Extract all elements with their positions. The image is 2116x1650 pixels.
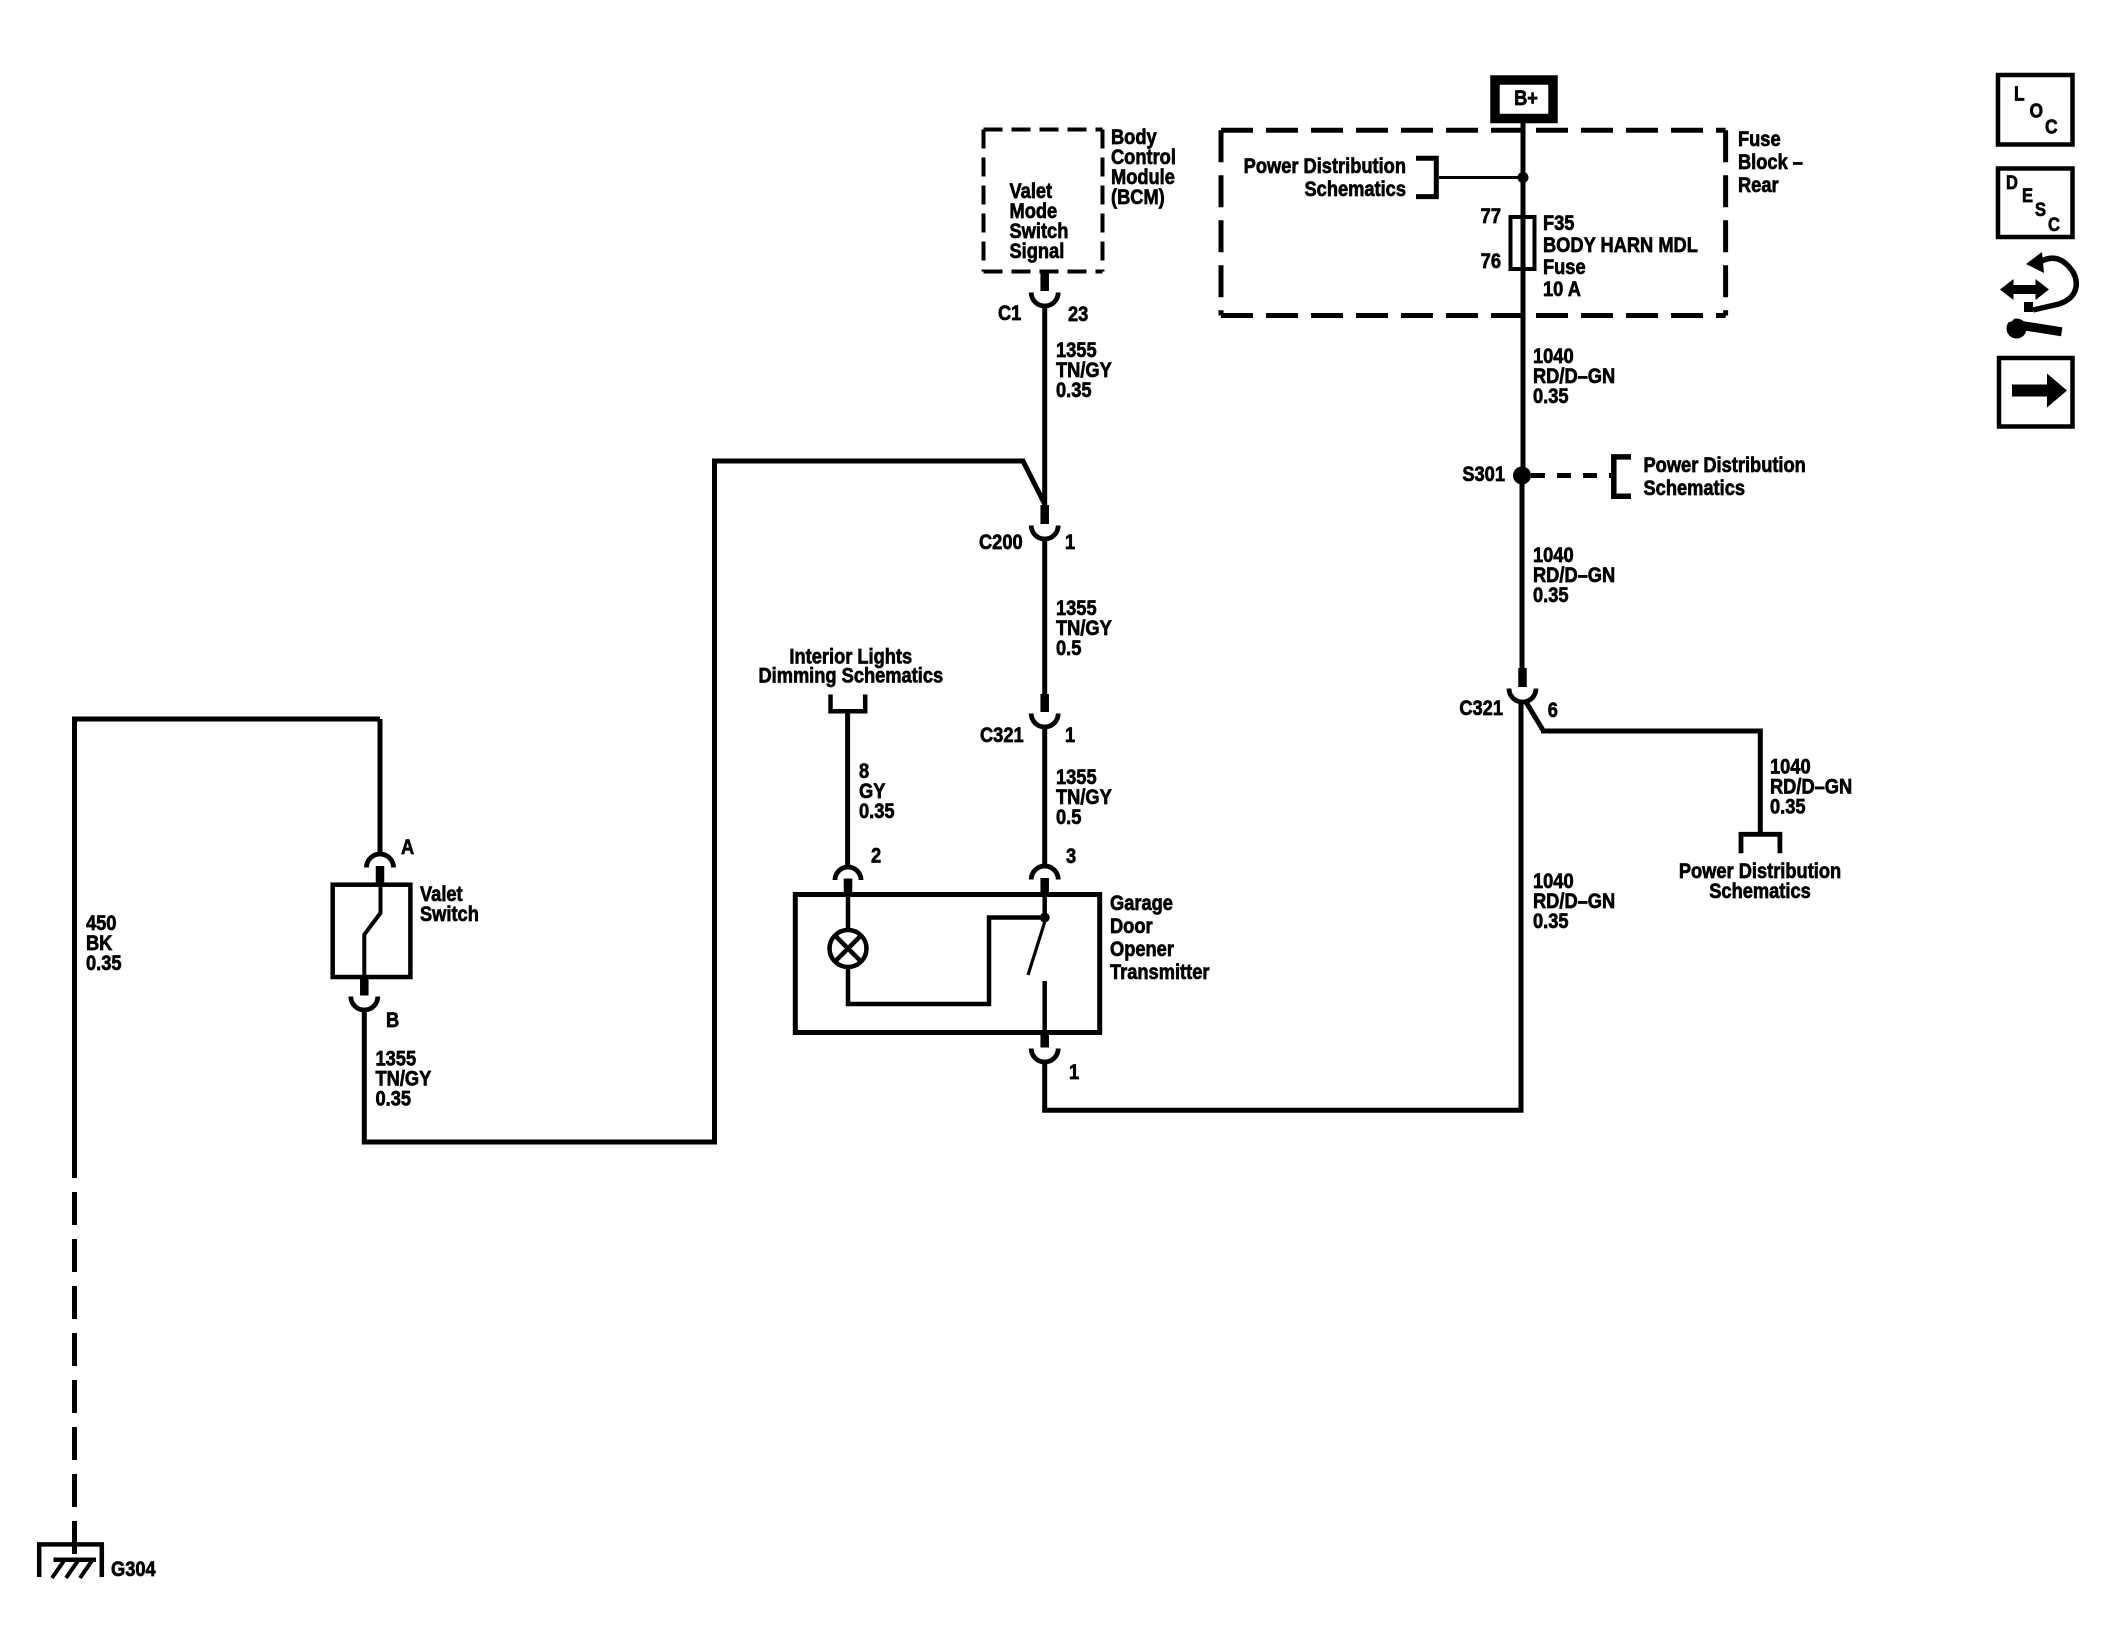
LOC icon box [1998, 75, 2073, 145]
DESC icon letter E [2022, 185, 2033, 206]
ground G304 bracket [39, 1544, 102, 1577]
label pin 6 [1548, 699, 1558, 722]
DESC icon letter S [2035, 199, 2046, 220]
svg-text:C321: C321 [980, 724, 1024, 747]
svg-text:1: 1 [1065, 724, 1075, 747]
pin A stub [376, 866, 385, 885]
label fuse pin 77 [1481, 205, 1501, 228]
rework/double-arrow + wrench icon [2000, 252, 2076, 339]
LOC icon letter C [2045, 115, 2058, 137]
wire 1040 from S301 to C321-6 [1520, 484, 1525, 668]
label wire 1040 RD/D-GN 0.35 (fuse) [1533, 345, 1615, 408]
svg-text:B: B [386, 1009, 399, 1032]
svg-text:G304: G304 [111, 1558, 156, 1581]
svg-text:C321: C321 [1459, 697, 1503, 720]
wire: drop to valet switch pin A [378, 719, 383, 854]
label C1 [998, 302, 1021, 325]
label wire 1355 TN/GY 0.35 (valet B) [376, 1047, 432, 1110]
wire 450 BK dashed segment down to G304 [72, 1192, 77, 1558]
B+ battery feed symbol [1495, 80, 1553, 119]
wire 1355 from C1 to C200 [1042, 306, 1047, 505]
connector GDO pin2 dome [835, 867, 861, 880]
svg-text:3: 3 [1066, 845, 1076, 868]
connector pin A dome [367, 854, 394, 867]
forward arrow glyph [2012, 374, 2067, 408]
off-page bracket (interior lights) [831, 695, 866, 712]
label ground G304 [111, 1558, 156, 1581]
pin B stub [360, 977, 369, 996]
svg-text:B+: B+ [1514, 87, 1538, 110]
forward arrow icon box [1999, 358, 2073, 427]
svg-text:S301: S301 [1462, 463, 1505, 486]
garage door opener transmitter box [795, 895, 1099, 1033]
fuse block - rear dashed box [1221, 130, 1726, 315]
splice S301 [1513, 467, 1531, 485]
svg-text:C1: C1 [998, 302, 1021, 325]
ground G304 slash 2 [66, 1560, 79, 1578]
label Power Distribution Schematics (S301) [1644, 454, 1806, 500]
connector GDO pin3 dome [1031, 866, 1058, 880]
valet switch box [333, 885, 411, 977]
DESC icon box [1998, 169, 2073, 238]
LOC icon letter O [2030, 99, 2044, 121]
label Valet Switch [420, 883, 479, 926]
off-page bracket (branch power distribution) [1741, 834, 1780, 853]
wire: valet B down, across, up riser to BCM branch [364, 461, 1044, 1142]
label wire 1040 RD/D-GN 0.35 (S301) [1533, 544, 1615, 607]
label Power Distribution Schematics (branch) [1679, 860, 1841, 903]
connector C200 cup [1031, 526, 1058, 540]
BCM dashed box (Valet Mode Switch Signal) [984, 130, 1103, 272]
DESC icon letter C [2048, 214, 2060, 235]
svg-text:D: D [2006, 172, 2018, 193]
label pin B [386, 1009, 399, 1032]
svg-text:1: 1 [1065, 531, 1075, 554]
svg-text:S: S [2035, 199, 2046, 220]
connector C1 cup [1031, 293, 1058, 307]
valet switch blade [364, 886, 380, 977]
label wire 1355 TN/GY 0.5 (C321) [1056, 766, 1112, 829]
label wire 1355 TN/GY 0.35 (C1) [1056, 339, 1112, 402]
svg-text:A: A [401, 836, 414, 859]
wire: GDO pin1 across and up to C321-6 [1045, 702, 1521, 1110]
label pin 23 [1068, 303, 1088, 326]
label Power Distribution Schematics (fuse block) [1244, 155, 1406, 201]
svg-text:C: C [2045, 115, 2058, 137]
branch wire to power distribution ref [1541, 731, 1760, 833]
ground G304 slash 1 [52, 1560, 65, 1578]
label pin 3 [1066, 845, 1076, 868]
GDO pin 1 stub [1040, 1032, 1049, 1048]
connector C321-6 stub [1518, 668, 1527, 687]
label S301 [1462, 463, 1505, 486]
off-page bracket (fuse block power distribution) [1416, 158, 1436, 196]
svg-text:6: 6 [1548, 699, 1558, 722]
svg-text:E: E [2022, 185, 2033, 206]
wire: ground-loop from valet A corner to left riser [75, 719, 381, 1178]
svg-text:C200: C200 [979, 531, 1023, 554]
ground G304 slash 3 [80, 1560, 93, 1578]
label wire 1040 RD/D-GN 0.35 (branch) [1770, 755, 1852, 818]
label C200 pin 1 [1065, 531, 1075, 554]
label Body Control Module (BCM) [1111, 126, 1176, 209]
label C200 [979, 531, 1023, 554]
ground G304 hatch bar [54, 1558, 97, 1563]
GDO pin 3 stub [1040, 878, 1049, 895]
label Valet Mode Switch Signal [1010, 180, 1069, 263]
svg-text:77: 77 [1481, 205, 1501, 228]
label C321 [980, 724, 1024, 747]
off-page bracket (S301 power distribution) [1614, 457, 1631, 496]
label wire 1355 TN/GY 0.5 (C200) [1056, 597, 1112, 660]
svg-text:O: O [2030, 99, 2044, 121]
label wire 8 GY 0.35 [859, 760, 895, 823]
label pin A [401, 836, 414, 859]
svg-text:L: L [2014, 82, 2025, 104]
GDO pin 2 stub [844, 879, 853, 896]
label pin 2 [871, 844, 881, 867]
wire from B+ through fuse to S301 [1521, 123, 1526, 467]
label Fuse Block - Rear [1738, 128, 1803, 197]
label C321 pin 1 [1065, 724, 1075, 747]
lamp (indicator) symbol [830, 930, 867, 967]
connector C200 stub [1040, 505, 1049, 524]
reference wire to bus [1439, 176, 1523, 179]
S301 dashed reference line [1531, 473, 1611, 478]
svg-text:23: 23 [1068, 303, 1088, 326]
svg-text:2: 2 [871, 844, 881, 867]
label GDO pin 1 [1069, 1061, 1079, 1084]
switch blade (open) [1028, 922, 1045, 975]
label Interior Lights Dimming Schematics [758, 645, 943, 687]
label wire 1040 RD/D-GN 0.35 (below C321-6) [1533, 870, 1615, 933]
connector pin B cup [351, 997, 378, 1010]
label C321 (pin6) [1459, 697, 1503, 720]
branch diagonal from C321-6 [1526, 702, 1544, 731]
svg-text:1: 1 [1069, 1061, 1079, 1084]
connector C321 pin6 cup [1509, 689, 1536, 703]
wire: pin3 stub to switch junction [1042, 895, 1047, 914]
fuse F35 body [1511, 217, 1535, 269]
connector C1 stub [1040, 272, 1049, 291]
label wire 450 BK 0.35 [86, 912, 122, 975]
LOC icon letter L [2014, 82, 2025, 104]
switch lower contact wire [1042, 981, 1047, 1032]
svg-text:C: C [2048, 214, 2060, 235]
wire: pin2 stub to lamp [846, 895, 851, 931]
label fuse pin 76 [1481, 250, 1501, 273]
junction node in GDO [1040, 913, 1050, 923]
DESC icon letter D [2006, 172, 2018, 193]
connector GDO pin1 cup [1031, 1049, 1058, 1063]
label F35 BODY HARN MDL Fuse 10A [1543, 212, 1698, 301]
label Garage Door Opener Transmitter [1110, 892, 1210, 984]
wire 1355 from C200 to C321 [1042, 539, 1047, 694]
wire 1355 from C321 to GDO pin3 [1042, 727, 1047, 867]
connector C321 pin1 cup [1031, 714, 1058, 728]
wire: lamp bottom loop to switch contact [848, 918, 1040, 1005]
connector C321-1 stub [1040, 694, 1049, 712]
label B+ [1514, 87, 1538, 110]
svg-text:76: 76 [1481, 250, 1501, 273]
wire 8 GY from bracket to GDO pin2 [845, 711, 850, 867]
junction dot on B+ wire [1518, 172, 1529, 183]
